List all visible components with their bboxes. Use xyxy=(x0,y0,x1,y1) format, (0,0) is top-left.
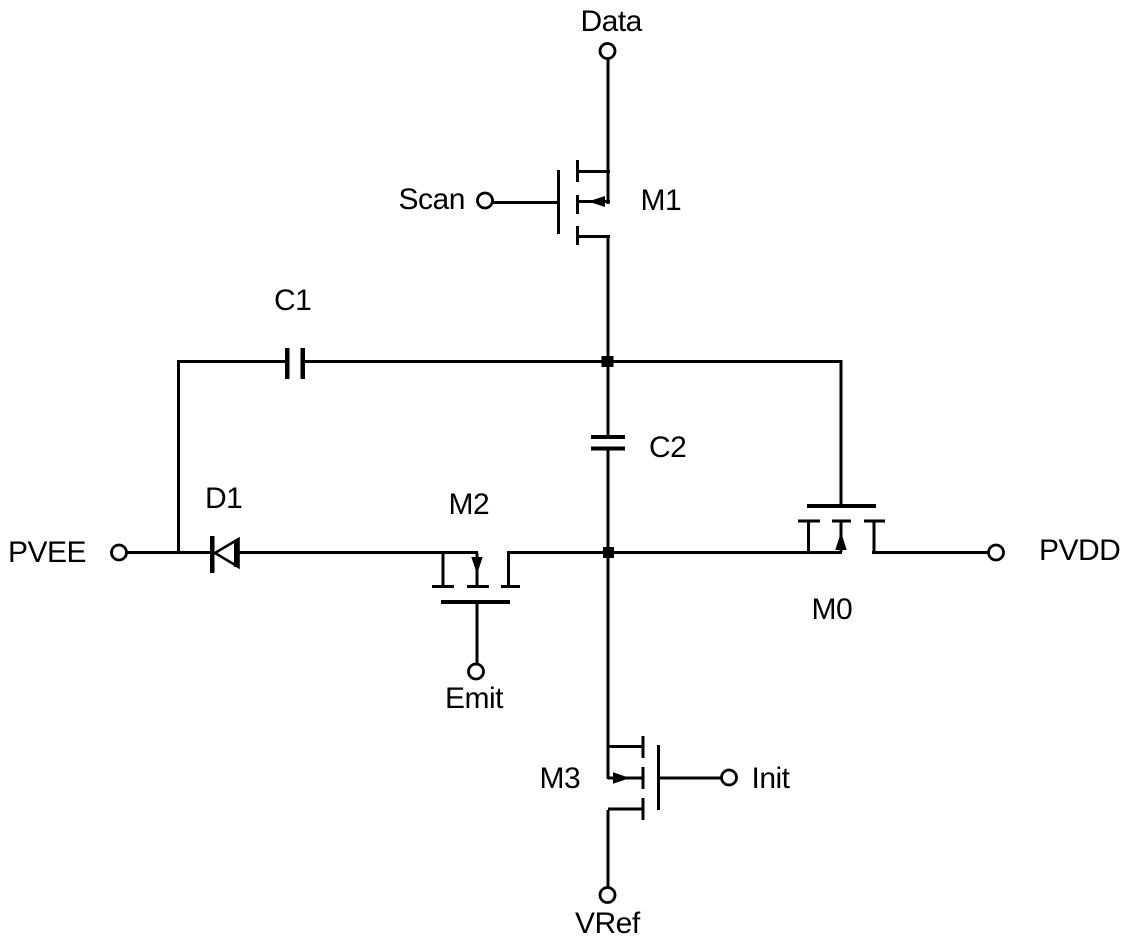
svg-text:M1: M1 xyxy=(641,184,682,217)
svg-text:Scan: Scan xyxy=(399,183,465,216)
svg-text:Data: Data xyxy=(581,5,643,38)
svg-text:VRef: VRef xyxy=(575,907,641,936)
svg-text:Emit: Emit xyxy=(445,682,504,715)
svg-text:M3: M3 xyxy=(540,762,581,795)
svg-text:D1: D1 xyxy=(205,482,242,515)
svg-text:Init: Init xyxy=(752,762,791,795)
svg-text:M2: M2 xyxy=(449,488,490,521)
svg-text:PVEE: PVEE xyxy=(8,536,86,569)
svg-text:PVDD: PVDD xyxy=(1039,534,1120,567)
svg-text:M0: M0 xyxy=(812,593,853,626)
svg-text:C1: C1 xyxy=(274,284,311,317)
svg-text:C2: C2 xyxy=(649,431,686,464)
